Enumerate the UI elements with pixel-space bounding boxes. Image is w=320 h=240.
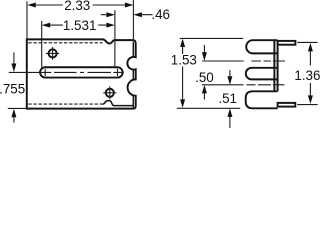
pin P3 xyxy=(278,103,296,107)
dimension .46 xyxy=(101,14,153,16)
spine inner line xyxy=(273,41,275,92)
dimension 1.36 xyxy=(309,51,311,96)
extension line bottom (.755) xyxy=(8,107,26,109)
extension line left (2.33) xyxy=(26,1,28,38)
extension line right (1.531/.46) xyxy=(114,10,116,67)
dimension .51 xyxy=(229,70,231,128)
extension line left (1.531) / bend line xyxy=(41,21,43,68)
svg-text:1.36: 1.36 xyxy=(294,68,320,83)
bottom notch curve xyxy=(103,101,114,106)
svg-text:.46: .46 xyxy=(151,7,170,22)
hole H2 xyxy=(106,89,114,97)
svg-text:2.33: 2.33 xyxy=(64,0,90,13)
slot left crosshair xyxy=(9,69,52,76)
dimension .755 xyxy=(13,53,15,123)
svg-text:.755: .755 xyxy=(0,82,25,97)
top extension line (1.36) xyxy=(297,41,317,43)
top extension line (1.53) xyxy=(180,37,244,39)
slot centerline (dash-dot) xyxy=(54,71,111,73)
top hidden bend line (dashed) xyxy=(28,42,102,44)
bottom extension line (1.36) xyxy=(297,104,317,106)
finger F2 (side view) xyxy=(246,68,278,80)
svg-text:1.53: 1.53 xyxy=(171,52,197,67)
svg-text:1.531: 1.531 xyxy=(63,18,97,33)
slot right crosshair xyxy=(113,69,124,76)
bottom extension line (1.53/.51) xyxy=(177,107,240,109)
hole H1 xyxy=(49,49,57,57)
hole H2 crosshair xyxy=(103,86,116,99)
extension line right (2.33/.46) xyxy=(132,0,134,39)
spine outer line xyxy=(277,40,279,91)
dimension 2.33 xyxy=(36,4,125,6)
svg-text:.51: .51 xyxy=(218,91,237,106)
bottom hidden bend line (dashed) xyxy=(28,103,103,105)
dimension 1.53 xyxy=(182,46,184,100)
dimension .50 xyxy=(203,45,205,100)
slot (obround) xyxy=(40,67,123,77)
plate outline (top view) xyxy=(27,39,136,108)
svg-text:.50: .50 xyxy=(195,70,214,85)
finger F1 (side view) xyxy=(246,40,277,53)
finger F3 (side view) xyxy=(246,91,278,108)
gap1 centerline xyxy=(202,58,285,65)
gap2 centerline xyxy=(202,81,284,89)
hole H1 crosshair xyxy=(46,47,59,60)
dimension 1.531 xyxy=(50,24,106,26)
inner right fold line xyxy=(132,42,134,108)
pin P1 xyxy=(278,41,296,45)
bottom-right fold line xyxy=(114,105,133,107)
